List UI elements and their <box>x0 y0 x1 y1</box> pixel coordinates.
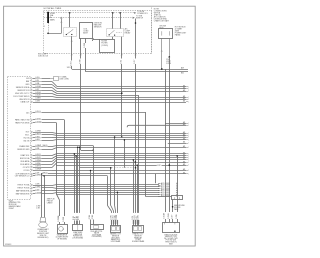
svg-text:RELAY: RELAY <box>125 31 132 34</box>
wire coil drop long bus <box>80 38 82 150</box>
ign switch wire 2 <box>169 39 171 57</box>
svg-text:(ON ENGINE): (ON ENGINE) <box>72 238 83 240</box>
svg-text:0.3RL: 0.3RL <box>35 187 40 189</box>
svg-text:A09: A09 <box>181 66 184 69</box>
svg-text:0.3BR: 0.3BR <box>35 98 41 100</box>
svg-text:SENSOR: SENSOR <box>94 26 102 28</box>
wire GEN drop 1 <box>56 123 58 194</box>
svg-text:0.3RB: 0.3RB <box>35 131 41 133</box>
svg-text:0.3R: 0.3R <box>137 215 139 220</box>
A pin circles <box>111 220 112 221</box>
ignition coil box U1 <box>80 23 93 39</box>
svg-text:0.3GW: 0.3GW <box>35 121 41 123</box>
svg-text:0.5G: 0.5G <box>71 61 73 66</box>
svg-text:0.3YG: 0.3YG <box>35 166 41 168</box>
wire fuse to node <box>48 23 50 32</box>
small idle sw box top right <box>172 196 183 200</box>
svg-text:ENG COMPT: ENG COMPT <box>38 53 48 55</box>
svg-text:MAIN: MAIN <box>50 18 55 21</box>
chip row 165 <box>157 164 162 166</box>
condenser vertical wire from bus arrow <box>135 19 137 168</box>
svg-text:DISTRIB: DISTRIB <box>174 207 180 209</box>
svg-text:CONN: CONN <box>166 63 172 65</box>
svg-text:0.3GO: 0.3GO <box>35 92 41 94</box>
K-line arc to DLC <box>50 77 54 79</box>
svg-text:0.5B: 0.5B <box>176 214 178 219</box>
PCM dashed box <box>8 77 31 200</box>
shield dotted line <box>111 167 136 169</box>
svg-text:OF ENGINE): OF ENGINE) <box>92 236 102 238</box>
svg-text:S201: S201 <box>67 67 71 69</box>
svg-text:CHART: CHART <box>47 201 53 204</box>
extra mid rows jog lines <box>56 165 186 167</box>
junction dot end of row <box>121 92 123 94</box>
dashed fuse box outline <box>44 11 152 54</box>
CKP wire pair <box>41 174 43 218</box>
relay K2 top wires <box>112 13 114 28</box>
relay pin circle <box>61 17 63 19</box>
svg-text:UPSTREAM: UPSTREAM <box>111 240 121 243</box>
svg-text:MAP SENSOR B: MAP SENSOR B <box>16 193 30 196</box>
wire X drop 1 <box>90 171 92 225</box>
svg-text:0.3WG: 0.3WG <box>35 160 41 162</box>
svg-text:0.3GY: 0.3GY <box>35 154 41 156</box>
svg-text:JUNC BLOCK: JUNC BLOCK <box>38 55 49 57</box>
svg-text:0.3YB: 0.3YB <box>35 118 41 120</box>
bottom right TPS box <box>163 223 180 233</box>
heated O2 sensor box A <box>111 226 121 233</box>
wire B drop 3 <box>137 165 139 226</box>
svg-text:0.5B: 0.5B <box>89 214 91 219</box>
wire W drop 3 <box>77 147 79 224</box>
svg-text:0.3BW: 0.3BW <box>35 145 41 147</box>
svg-text:SENSOR GND A: SENSOR GND A <box>16 86 30 89</box>
svg-text:0.3L: 0.3L <box>35 80 39 82</box>
svg-text:OF ENGINE): OF ENGINE) <box>57 238 67 240</box>
junction dot row 165 <box>169 164 171 166</box>
svg-text:0.5W: 0.5W <box>63 217 65 222</box>
wire A/C line to right edge <box>127 125 186 127</box>
relay K2 output long bus <box>121 37 123 137</box>
svg-text:SEE GROUND: SEE GROUND <box>174 205 186 207</box>
purge solenoid box <box>73 225 83 231</box>
junction dot C101 <box>168 56 170 58</box>
svg-text:EVAP SOL: EVAP SOL <box>21 154 30 157</box>
junction dot fuse node <box>47 32 49 34</box>
wire GEN drop 2 <box>64 120 66 225</box>
wire B drop 4 <box>138 95 140 226</box>
wire A drop 4 <box>117 192 119 225</box>
wire A drop 1 <box>107 176 109 205</box>
svg-text:(COND): (COND) <box>101 45 108 47</box>
svg-text:0.3WL: 0.3WL <box>35 163 40 165</box>
svg-text:0.5Y: 0.5Y <box>171 214 173 219</box>
relay coil dot on bus <box>69 12 71 14</box>
fuse F1 30A <box>47 12 49 23</box>
relay K2 dashed box <box>107 29 124 37</box>
svg-text:SHLD: SHLD <box>43 173 49 175</box>
svg-text:0.5R: 0.5R <box>92 214 94 219</box>
wire right v4 <box>177 156 179 222</box>
svg-text:CHART LIST BATT: CHART LIST BATT <box>154 19 170 22</box>
svg-text:LINK CONN: LINK CONN <box>59 79 69 81</box>
wire W drop 1 <box>74 154 76 224</box>
svg-text:IDLE AIR B: IDLE AIR B <box>20 163 30 166</box>
wire right stub y123 <box>165 123 186 125</box>
right edge pin labels <box>183 85 190 176</box>
svg-text:0.3VW: 0.3VW <box>35 192 41 194</box>
svg-text:B01: B01 <box>181 73 184 75</box>
generator G1 box <box>58 225 68 234</box>
CKP connector <box>40 217 46 221</box>
svg-text:SENSOR GND: SENSOR GND <box>17 149 30 151</box>
bus arrow A <box>134 12 136 14</box>
svg-text:0.3Y: 0.3Y <box>78 215 80 220</box>
svg-text:0.5WB: 0.5WB <box>58 215 60 222</box>
right connector pin stack <box>158 182 177 198</box>
relay K1 output wire <box>71 36 73 69</box>
svg-text:0.5W: 0.5W <box>84 43 86 48</box>
dashed bus line 3 <box>44 17 133 19</box>
svg-text:0.3W: 0.3W <box>35 101 40 103</box>
wire C101 down <box>169 57 171 222</box>
wire right v3 <box>172 200 174 223</box>
svg-text:MAP SENSOR A: MAP SENSOR A <box>16 190 30 193</box>
wire A drop 3 <box>114 137 116 206</box>
svg-text:INJ 2 A: INJ 2 A <box>24 136 31 139</box>
idle air valve box <box>91 225 104 230</box>
relay K1 main relay dashed box <box>64 28 77 37</box>
svg-text:A12 0.3GW: A12 0.3GW <box>161 195 170 198</box>
wire W drop 4 <box>79 147 81 224</box>
svg-text:PARK POS SW B: PARK POS SW B <box>15 122 30 125</box>
svg-text:0.85L: 0.85L <box>35 136 40 138</box>
PCM pin labels and connector arrows <box>13 78 33 196</box>
wire node to relay coil <box>48 33 61 35</box>
svg-text:1: 1 <box>44 26 45 28</box>
wire B drop 2 <box>135 162 137 226</box>
CKP sensor body <box>39 222 48 228</box>
svg-text:0.3W: 0.3W <box>116 215 118 220</box>
wire coil drop 2 <box>85 38 87 71</box>
svg-text:0.3R: 0.3R <box>35 184 40 186</box>
dashed firewall line right <box>151 8 153 54</box>
svg-text:0.3LG: 0.3LG <box>35 111 41 113</box>
svg-text:COOL TEMP SEN D: COOL TEMP SEN D <box>13 96 30 98</box>
A wire labels <box>111 213 113 220</box>
svg-text:ENGINE BLK): ENGINE BLK) <box>38 237 49 239</box>
relay K2 pin dots on bus <box>112 12 114 14</box>
svg-text:0.3PB: 0.3PB <box>35 175 41 177</box>
B wire labels <box>132 213 134 220</box>
wire A drop 2 <box>110 168 112 206</box>
wire coil bus corner to X <box>81 150 94 152</box>
svg-text:DATA OUT: DATA OUT <box>21 101 31 104</box>
svg-text:GND: GND <box>25 84 30 86</box>
svg-text:DOWNSTREAM: DOWNSTREAM <box>132 240 145 243</box>
wire labels on rows <box>35 77 42 195</box>
svg-text:THROT POS A: THROT POS A <box>17 184 30 187</box>
svg-text:THROT POS B: THROT POS B <box>17 188 30 190</box>
svg-text:ASSY: ASSY <box>83 32 89 35</box>
svg-text:VEH SPD IN: VEH SPD IN <box>19 99 30 101</box>
junction dot feed <box>161 68 163 70</box>
noise filter box U2 <box>100 40 115 53</box>
wire shield feed from W w4 <box>80 167 111 169</box>
W wire labels <box>73 213 75 221</box>
svg-text:0.3G: 0.3G <box>35 77 40 79</box>
svg-text:EGR SOL A: EGR SOL A <box>20 157 30 160</box>
wire X drop 2 <box>93 146 95 225</box>
svg-text:O2 SIG: O2 SIG <box>23 170 30 172</box>
ign switch wire 1 <box>161 39 163 70</box>
svg-text:PAGE): PAGE) <box>175 33 181 36</box>
svg-text:SHLD: SHLD <box>43 145 49 147</box>
svg-text:INJ 3 B: INJ 3 B <box>23 140 30 142</box>
wire coil to noise filter <box>92 40 94 41</box>
page border frame <box>4 6 196 246</box>
wire B drop 1 <box>133 160 135 226</box>
wire W drop 2 <box>76 156 78 224</box>
wire ign down right v1 <box>165 69 167 222</box>
heated O2 sensor box B <box>133 226 144 233</box>
wire right stack drop <box>155 174 157 183</box>
svg-text:0.5GR: 0.5GR <box>35 86 41 88</box>
svg-text:0.5LB: 0.5LB <box>168 213 170 219</box>
svg-text:ENG SPD OUT C: ENG SPD OUT C <box>15 93 30 95</box>
svg-text:0.5GR: 0.5GR <box>164 212 166 218</box>
coil pin circle <box>92 38 94 40</box>
dashed bus line 2 <box>44 12 134 14</box>
svg-text:PARK / NEUT SW: PARK / NEUT SW <box>15 119 30 122</box>
svg-text:0.5B: 0.5B <box>79 59 81 64</box>
svg-text:CKP SENSOR LO: CKP SENSOR LO <box>15 176 30 178</box>
svg-text:INJ 1: INJ 1 <box>25 135 29 137</box>
svg-text:0.3RW: 0.3RW <box>35 169 41 171</box>
svg-text:RIGHT: RIGHT <box>9 208 14 210</box>
relay K2 bottom wire to filter <box>112 37 114 39</box>
svg-text:CRANK REF: CRANK REF <box>19 145 30 148</box>
right wire labels <box>164 212 166 219</box>
wire shield drop <box>124 140 126 168</box>
svg-text:HOT AT ALL TIMES: HOT AT ALL TIMES <box>44 7 62 10</box>
bus arrow B <box>133 17 135 19</box>
B pin circles <box>133 220 134 221</box>
svg-text:F59613: F59613 <box>5 244 11 246</box>
svg-text:0.3LR: 0.3LR <box>35 157 41 159</box>
svg-text:0.5Y: 0.5Y <box>134 59 136 64</box>
svg-text:O2 HTR: O2 HTR <box>23 167 30 169</box>
svg-text:0.3LB: 0.3LB <box>35 95 41 97</box>
wire feed line y71.5 <box>85 71 188 73</box>
wide chip CKP <box>42 172 48 174</box>
wire cam drop <box>145 112 147 197</box>
svg-text:SWITCH: SWITCH <box>136 18 144 20</box>
svg-text:0.85Y: 0.85Y <box>35 139 41 141</box>
DLC connector symbol <box>54 77 59 81</box>
svg-text:SENSOR 5V B: SENSOR 5V B <box>17 90 30 92</box>
wire feed line y69 <box>72 69 188 71</box>
svg-text:IDLE AIR A: IDLE AIR A <box>20 160 30 163</box>
PCM output wires with mid jogs <box>33 79 186 194</box>
svg-text:0.85G: 0.85G <box>35 133 41 135</box>
wire relay coil drop <box>69 13 71 27</box>
wire short right stub <box>168 143 186 145</box>
